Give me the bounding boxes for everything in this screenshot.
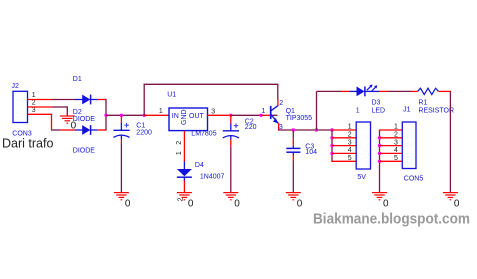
wire 5V pin2 bbox=[332, 137, 357, 139]
wire D4 to ground bbox=[183, 181, 185, 193]
svg-text:2: 2 bbox=[394, 132, 398, 139]
svg-text:Q1: Q1 bbox=[286, 108, 295, 115]
ground (CON5) bbox=[372, 193, 387, 200]
voltage regulator U1 box bbox=[169, 108, 208, 131]
resistor R1 bbox=[418, 88, 439, 94]
node junction dot CON5 pin4 bbox=[378, 152, 381, 155]
wire main bus (106 to 144) bbox=[106, 114, 144, 116]
svg-text:1: 1 bbox=[356, 108, 360, 115]
svg-text:2: 2 bbox=[177, 198, 184, 202]
wire C2 to ground bbox=[230, 140, 232, 193]
wire pin3 J2 down to D2 row bbox=[28, 114, 76, 130]
svg-text:1: 1 bbox=[32, 92, 36, 99]
svg-text:3: 3 bbox=[348, 139, 352, 146]
svg-text:2200: 2200 bbox=[136, 129, 152, 136]
svg-text:1: 1 bbox=[176, 151, 183, 155]
wire vertical joining D1 and D2 outputs bbox=[105, 99, 107, 131]
wire 5V pin3 bbox=[332, 145, 357, 147]
svg-text:Biakmane.blogspot.com: Biakmane.blogspot.com bbox=[313, 211, 470, 228]
svg-text:3: 3 bbox=[32, 107, 36, 114]
wire emitter row to 5V bus bbox=[278, 129, 333, 131]
transistor Q1 bbox=[271, 99, 279, 123]
node junction dot CON5 pin2 bbox=[378, 136, 381, 139]
svg-text:4: 4 bbox=[348, 147, 352, 154]
wire CON5 pin1 bbox=[379, 129, 403, 131]
ground (J2 pin2) bbox=[60, 116, 75, 123]
svg-text:5V: 5V bbox=[357, 174, 366, 181]
wire pin2 J2 to ground bbox=[28, 106, 68, 116]
wire 5V pin5 bbox=[331, 160, 356, 162]
wire LED row left bbox=[317, 90, 350, 92]
svg-text:J2: J2 bbox=[12, 83, 20, 90]
wire C3 to ground bbox=[292, 155, 294, 193]
node junction dot CON5 pin5 bbox=[378, 160, 381, 163]
wire bypass top horizontal bbox=[144, 83, 279, 85]
wire 5V pin1 bbox=[332, 129, 357, 131]
svg-text:220: 220 bbox=[245, 124, 257, 131]
node junction dot 5V pin4 bbox=[330, 152, 333, 155]
svg-text:3: 3 bbox=[211, 108, 215, 115]
ground (R1) bbox=[443, 193, 458, 200]
svg-text:2: 2 bbox=[176, 141, 183, 145]
svg-text:1: 1 bbox=[159, 108, 163, 115]
wire LED to R1 bbox=[379, 90, 418, 92]
svg-text:Dari trafo: Dari trafo bbox=[2, 137, 53, 151]
svg-text:RESISTOR: RESISTOR bbox=[418, 107, 454, 114]
wire bus to U1 pin1 bbox=[144, 114, 169, 116]
ground (C1) bbox=[114, 193, 129, 200]
wire U1 pin3 to C2 tap bbox=[208, 114, 231, 116]
diode D4 (vertical, pointing down) bbox=[177, 162, 192, 182]
svg-text:4: 4 bbox=[394, 147, 398, 154]
connector J1 box bbox=[402, 122, 416, 169]
connector 5V box bbox=[356, 122, 370, 169]
svg-text:D1: D1 bbox=[73, 76, 82, 83]
node junction dot LED tap bbox=[315, 128, 318, 131]
svg-text:1: 1 bbox=[348, 124, 352, 131]
wire CON5 pin3 bbox=[380, 145, 403, 147]
svg-text:3: 3 bbox=[394, 139, 398, 146]
svg-text:TIP3055: TIP3055 bbox=[286, 115, 313, 122]
wire LED branch vertical bbox=[316, 91, 318, 130]
svg-text:0: 0 bbox=[125, 199, 131, 210]
node junction dot C1 tap bbox=[120, 114, 123, 117]
svg-text:0: 0 bbox=[297, 199, 303, 210]
wire D2 cathode to corner bbox=[97, 129, 106, 131]
ground (C3) bbox=[286, 193, 301, 200]
svg-text:IN: IN bbox=[172, 113, 179, 120]
node junction dot 5V pin2 bbox=[330, 136, 333, 139]
node junction dot 5V pin3 bbox=[330, 144, 333, 147]
svg-text:GND: GND bbox=[181, 109, 188, 125]
svg-text:1: 1 bbox=[262, 108, 266, 115]
svg-text:LED: LED bbox=[372, 108, 386, 115]
svg-text:1N4007: 1N4007 bbox=[200, 174, 225, 181]
wire Q1 emitter down to emitter row bbox=[278, 123, 280, 131]
wire D1 cathode to corner bbox=[97, 99, 106, 101]
svg-text:104: 104 bbox=[305, 149, 317, 156]
svg-text:D4: D4 bbox=[195, 162, 204, 169]
wire pin1 J2 to D1 bbox=[28, 99, 76, 101]
node junction dot base wire bbox=[259, 114, 262, 117]
wire 5V connector bus bbox=[331, 130, 333, 161]
wire R1 to right corner bbox=[438, 90, 451, 92]
node junction dot bypass tap bbox=[143, 114, 146, 117]
svg-text:OUT: OUT bbox=[189, 113, 205, 120]
svg-text:2: 2 bbox=[32, 100, 36, 107]
wire CON5 pin4 bbox=[380, 152, 403, 154]
svg-text:0: 0 bbox=[383, 199, 389, 210]
wire C2 tap to base segment bbox=[231, 114, 261, 116]
LED D3 bbox=[350, 85, 380, 97]
wire 5V pin4 bbox=[332, 152, 357, 154]
svg-text:1: 1 bbox=[394, 124, 398, 131]
svg-text:0: 0 bbox=[454, 199, 460, 210]
node junction dot (106,115.3) bbox=[104, 114, 107, 117]
svg-text:D3: D3 bbox=[372, 100, 381, 107]
capacitor C3 bbox=[286, 130, 300, 155]
svg-text:CON5: CON5 bbox=[404, 176, 424, 183]
capacitor C1 bbox=[113, 115, 129, 139]
svg-text:2: 2 bbox=[348, 132, 352, 139]
node junction dot CON5 pin3 bbox=[378, 144, 381, 147]
wire bypass vertical right to Q1 collector bbox=[277, 84, 279, 100]
svg-text:J1: J1 bbox=[403, 107, 411, 114]
capacitor C2 bbox=[223, 115, 239, 139]
wire CON5 pin5 bbox=[380, 160, 403, 162]
node junction dot C3 tap bbox=[292, 128, 295, 131]
wire CON5 pin2 bbox=[380, 137, 403, 139]
wire bypass vertical left bbox=[143, 84, 145, 116]
svg-text:DIODE: DIODE bbox=[73, 147, 96, 154]
svg-text:5: 5 bbox=[394, 155, 398, 162]
diode D1 bbox=[75, 95, 97, 105]
wire C1 to ground bbox=[120, 139, 122, 192]
node junction dot C2 tap bbox=[229, 114, 232, 117]
wire CON5 bus bbox=[379, 130, 381, 192]
node junction dot 5V bus corner bbox=[330, 128, 333, 131]
wire U1 pin2 down bbox=[183, 131, 185, 162]
wire R1 vertical to ground bbox=[449, 91, 451, 192]
wire to Q1 base bbox=[261, 114, 270, 116]
svg-text:0: 0 bbox=[188, 199, 194, 210]
svg-text:R1: R1 bbox=[418, 99, 427, 106]
ground (D4) bbox=[177, 193, 192, 200]
svg-text:C1: C1 bbox=[136, 122, 145, 129]
svg-text:2: 2 bbox=[279, 100, 283, 107]
svg-text:DIODE: DIODE bbox=[73, 116, 96, 123]
svg-text:5: 5 bbox=[348, 155, 352, 162]
ground (C2) bbox=[223, 193, 238, 200]
svg-text:LM7805: LM7805 bbox=[191, 131, 216, 138]
diode D2 bbox=[75, 125, 97, 135]
connector J2 bbox=[13, 91, 28, 122]
svg-text:0: 0 bbox=[234, 199, 240, 210]
svg-text:U1: U1 bbox=[167, 91, 176, 98]
